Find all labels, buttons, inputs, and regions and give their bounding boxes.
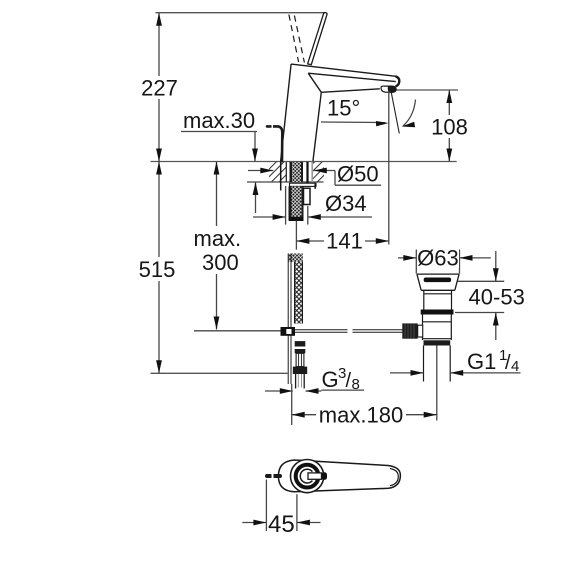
svg-text:515: 515 bbox=[139, 257, 176, 282]
svg-text:max.180: max.180 bbox=[319, 403, 403, 428]
O34 extension lines bbox=[286, 186, 308, 225]
joystick lever (solid position) bbox=[308, 13, 327, 65]
horseshoe washer bbox=[290, 183, 317, 189]
drain flange top bbox=[417, 274, 459, 290]
water stream 15 deg line bbox=[391, 89, 400, 134]
reference line: spout outlet level bbox=[392, 89, 458, 91]
handle top view outline bbox=[278, 460, 400, 492]
deck cross-section hatching right bbox=[313, 162, 324, 182]
drain neck bbox=[424, 290, 452, 309]
svg-text:141: 141 bbox=[326, 229, 363, 254]
dimension G3/8 bbox=[265, 365, 364, 394]
dimension O34 bbox=[253, 191, 372, 220]
svg-text:Ø63: Ø63 bbox=[417, 246, 459, 271]
spout tip extension line bbox=[388, 91, 390, 245]
dimension 45 bbox=[242, 480, 320, 539]
reference line: mounting deck surface bbox=[151, 161, 457, 163]
svg-text:40-53: 40-53 bbox=[469, 285, 525, 310]
drain centre line bbox=[436, 346, 438, 421]
svg-text:max.30: max.30 bbox=[183, 108, 255, 133]
hose end fitting stack bbox=[293, 341, 307, 388]
svg-text:300: 300 bbox=[202, 250, 239, 275]
reference line: rod pulled-down level bbox=[151, 372, 288, 374]
centre line below stud bbox=[295, 221, 297, 250]
pop-up rod below deck bbox=[288, 254, 291, 385]
drain tail coupling bbox=[424, 340, 451, 345]
faucet base edges extended (O50 extension lines) bbox=[281, 162, 313, 191]
threaded stud with mounting nut bbox=[289, 186, 304, 221]
angle 15 deg leader bbox=[321, 96, 416, 128]
dimension max.300 bbox=[192, 162, 244, 330]
svg-text:8: 8 bbox=[352, 376, 360, 393]
svg-text:45: 45 bbox=[268, 511, 295, 538]
svg-text:4: 4 bbox=[511, 358, 519, 375]
svg-text:227: 227 bbox=[141, 76, 178, 101]
handle pin bbox=[267, 474, 280, 478]
faucet body outline bbox=[281, 64, 400, 161]
dimension G1 1/4 bbox=[390, 347, 521, 376]
deck cross-section hatching left bbox=[247, 162, 324, 182]
dimension O50 bbox=[248, 162, 381, 187]
svg-text:108: 108 bbox=[431, 115, 468, 140]
braided supply hose bbox=[295, 262, 303, 324]
dimension 40-53 bbox=[455, 251, 525, 340]
square tab on stud bbox=[304, 188, 311, 204]
drain tailpiece G1 1/4 bbox=[424, 346, 451, 382]
joystick bar in top view bbox=[308, 472, 327, 480]
svg-text:max.: max. bbox=[194, 226, 242, 251]
joystick lever (dashed alternate position) bbox=[289, 15, 305, 63]
dimension 227 bbox=[139, 13, 180, 162]
svg-text:G: G bbox=[322, 367, 339, 392]
dimension max.30 bbox=[181, 108, 258, 213]
rod clamp bbox=[281, 327, 296, 336]
supply hose collar bbox=[288, 254, 303, 263]
dimension 515 bbox=[137, 162, 178, 374]
svg-text:Ø50: Ø50 bbox=[337, 162, 379, 187]
dimension O63 bbox=[398, 246, 491, 274]
dimension max.180 bbox=[292, 384, 437, 428]
dimension 141 bbox=[296, 229, 388, 254]
pivot rod segment 2 bbox=[353, 330, 404, 333]
drain body bbox=[423, 315, 452, 341]
drain gasket (black ring) bbox=[421, 310, 454, 315]
pop-up rod knob above deck bbox=[267, 126, 282, 161]
deck hole edges bbox=[286, 162, 307, 186]
pivot rod segment 1 bbox=[295, 330, 348, 333]
cartridge circles bbox=[291, 460, 324, 493]
dimension 108 bbox=[429, 90, 470, 162]
svg-text:G1: G1 bbox=[467, 349, 496, 374]
pivot nut (knurled) bbox=[402, 323, 422, 338]
max300 extension line to linkage bbox=[194, 330, 281, 332]
svg-text:15°: 15° bbox=[327, 96, 360, 121]
reference line: top of lever bbox=[156, 12, 326, 14]
aerator at spout tip bbox=[381, 86, 396, 92]
svg-text:Ø34: Ø34 bbox=[325, 191, 367, 216]
threaded shank through deck bbox=[290, 162, 304, 182]
